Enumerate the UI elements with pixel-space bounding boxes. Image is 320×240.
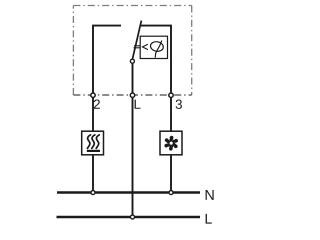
heater bar [87,150,100,152]
heater E1 box [82,131,104,155]
mechanical linkage dashes [134,45,140,47]
enclosure boundary bottom edge (terminal strip line) [73,94,191,96]
label 2 [94,99,100,108]
wire: terminal 2 riser to heater [92,95,94,132]
enclosure boundary left edge [72,6,74,96]
terminal 3 circle [169,93,173,97]
label L (bus) [206,214,212,224]
L bus line [57,216,201,219]
label 3 [176,99,182,108]
terminal 2 circle [91,93,95,97]
wire: heater to N bus [92,155,94,193]
N bus line [57,191,200,194]
fan M1 box [160,131,182,155]
hygrostat actuator box [140,36,167,58]
switch pivot contact circle [130,59,134,63]
fan blade symbol [164,136,179,151]
wire: top-right segment and terminal 3 riser [140,26,171,95]
label: less-than sign [142,44,148,49]
wire: fan to N bus [170,155,172,193]
junction: L riser to L bus [131,215,135,219]
heater heat-wave symbol [87,135,99,149]
junction: fan to N [169,191,173,195]
label: phi ring [150,41,164,53]
junction: heater to N [91,191,95,195]
label N [206,190,214,200]
enclosure boundary top edge [73,5,191,7]
wire: top-left segment from terminal 2 riser to fixed contact [93,26,121,95]
wire: terminal 3 riser to fan [170,95,172,132]
enclosure boundary right edge [191,6,193,96]
wire: L riser from switch pivot to L bus [132,61,134,217]
label: phi stem and tail [155,41,161,57]
terminal L circle [130,93,134,97]
switch S1 thermostat contact blade [132,21,141,60]
label L [135,100,141,109]
